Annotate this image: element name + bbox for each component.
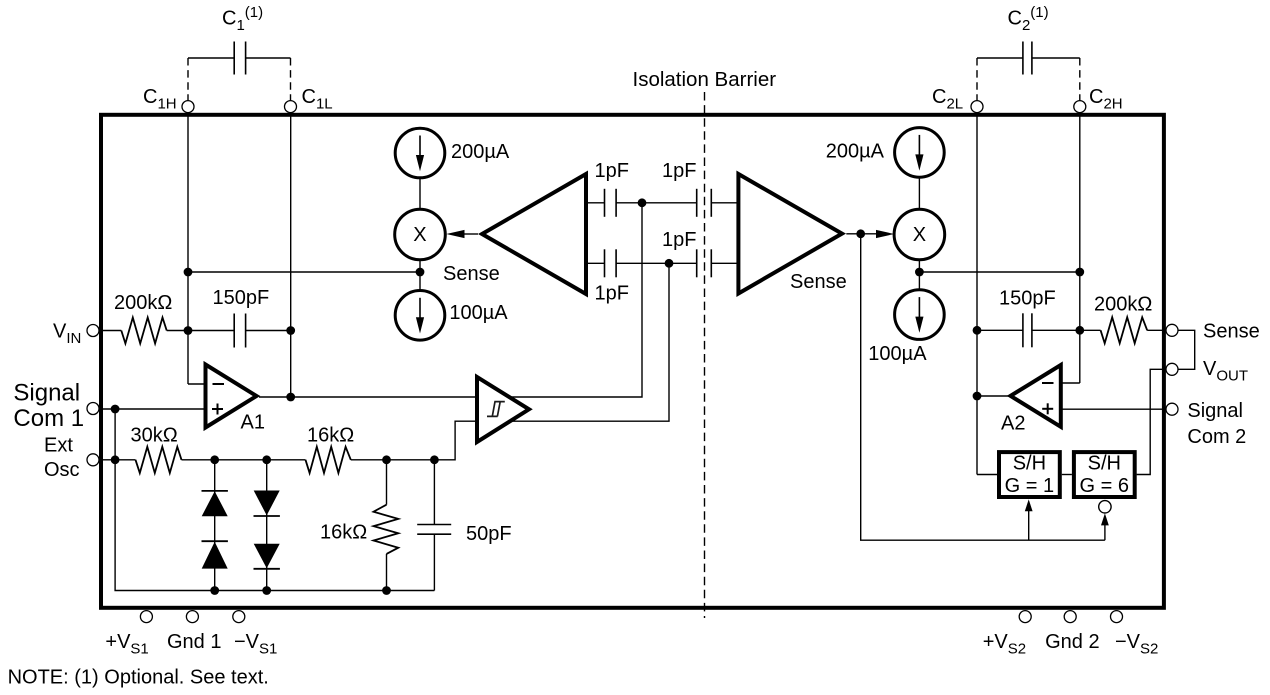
wire S/H G6 to VOUT [1137, 369, 1166, 474]
svg-text:1pF: 1pF [662, 229, 696, 251]
node C2H-150pF [1075, 326, 1084, 335]
wire external sense to vout [1178, 330, 1195, 369]
svg-text:X: X [913, 224, 926, 246]
wire 200k to Sense terminal [1147, 329, 1166, 331]
node receiver output [856, 229, 865, 238]
node 16k bottom [382, 586, 391, 595]
terminal C2L [971, 101, 983, 113]
current source 100uA left [395, 291, 445, 341]
wire A1 inverting stub [188, 383, 206, 385]
wire left demod amp to X (arrow) [462, 233, 478, 235]
node C1H-sense [184, 268, 193, 277]
multiplier X left [395, 209, 446, 260]
svg-text:S/H: S/H [1088, 453, 1121, 475]
wire sense line right [919, 271, 1079, 273]
svg-text:200µA: 200µA [826, 141, 885, 163]
wire X to sense node right [918, 260, 920, 290]
wire C2L to S/H G1 [977, 474, 997, 476]
resistor 30k [136, 447, 182, 473]
amplifier left sense driver [482, 174, 586, 294]
svg-text:Com 2: Com 2 [1187, 426, 1246, 448]
node diode2 bottom [262, 586, 271, 595]
resistor 16k vertical [374, 460, 399, 591]
node 50pF top [430, 455, 439, 464]
node C1L-A1out [286, 393, 295, 402]
wire receiver output [846, 233, 878, 235]
svg-text:Gnd 2: Gnd 2 [1045, 631, 1099, 653]
arrow control into S/H G6 [1104, 525, 1106, 541]
capacitor 1pF upper barrier [697, 189, 739, 217]
svg-text:1pF: 1pF [662, 160, 696, 182]
wire sense line left [188, 271, 420, 273]
terminal C2H [1074, 101, 1086, 113]
svg-text:200kΩ: 200kΩ [114, 292, 172, 314]
capacitor 1pF lower left [586, 249, 697, 277]
wire left bus vertical and bottom [115, 409, 434, 591]
terminal +VS2 [1019, 611, 1031, 623]
terminal C1H [182, 101, 194, 113]
terminal Signal Com 1 [87, 403, 99, 415]
wire resistor to 150pF [167, 330, 235, 332]
wire C1H vertical [187, 113, 189, 384]
capacitor 50pF [417, 460, 451, 591]
svg-text:30kΩ: 30kΩ [131, 425, 178, 447]
svg-text:G = 1: G = 1 [1005, 475, 1054, 497]
svg-text:Isolation Barrier: Isolation Barrier [633, 68, 777, 91]
node sense right [915, 268, 924, 277]
terminal VIN [87, 325, 99, 337]
node signal com 1 bus [111, 405, 120, 414]
node C1L-150pF [286, 326, 295, 335]
wire 150pF to C1L line [246, 330, 291, 332]
node sense left [416, 268, 425, 277]
wire 200uA to X right [918, 177, 920, 209]
terminal VOUT [1166, 363, 1178, 375]
svg-text:16kΩ: 16kΩ [320, 522, 367, 544]
svg-text:50pF: 50pF [466, 523, 512, 545]
wire A1 output to modulator and up [259, 203, 642, 397]
capacitor C2 (external, optional) [977, 4, 1080, 101]
svg-text:100µA: 100µA [449, 302, 508, 324]
isolation barrier dashed line [704, 92, 706, 618]
node upper barrier cap [638, 198, 647, 207]
wire control line down to S/H [861, 234, 1105, 540]
node C2L-150pF [973, 326, 982, 335]
wire 200uA to X left [419, 178, 421, 210]
block S/H G=1 [999, 452, 1060, 497]
svg-text:150pF: 150pF [213, 287, 270, 309]
comparator U1 duty-cycle modulator (hysteresis) [477, 377, 529, 442]
node 16k top [382, 455, 391, 464]
svg-text:G = 6: G = 6 [1080, 475, 1129, 497]
node C1H-vin [184, 326, 193, 335]
wire A2 inverting stub [1061, 382, 1080, 384]
svg-text:100µA: 100µA [868, 343, 927, 365]
wire C1L vertical [290, 113, 292, 397]
svg-text:Sense: Sense [790, 271, 847, 293]
svg-text:A1: A1 [241, 412, 265, 434]
node diode2 top [262, 455, 271, 464]
wire VIN to resistor [99, 330, 121, 332]
svg-text:Signal: Signal [13, 380, 80, 407]
capacitor 150pF left [233, 314, 235, 348]
wire between S/H blocks [1062, 474, 1072, 476]
wire 16k to modulator input [351, 263, 669, 460]
resistor 16k horizontal [306, 447, 351, 473]
svg-text:16kΩ: 16kΩ [307, 425, 354, 447]
op-amp A1 [206, 365, 265, 434]
IC package outline box [101, 115, 1164, 608]
terminal Ext Osc [87, 454, 99, 466]
svg-text:Com 1: Com 1 [13, 405, 84, 432]
wire Ext Osc to 30k [99, 459, 136, 461]
wire C2L to A2 apex [977, 395, 1009, 397]
terminal Gnd 1 [186, 611, 198, 623]
current source 200uA right [895, 128, 945, 178]
svg-text:NOTE: (1) Optional. See text.: NOTE: (1) Optional. See text. [8, 667, 269, 689]
wire 30k to 16k [182, 459, 306, 461]
diode pair up (left string) [202, 460, 228, 591]
terminal Gnd 2 [1064, 611, 1076, 623]
terminal Sense out [1166, 324, 1178, 336]
node C2H-sense [1075, 268, 1084, 277]
terminal +VS1 [140, 611, 152, 623]
capacitor 1pF upper left [586, 189, 697, 217]
terminal Signal Com 2 [1166, 403, 1178, 415]
node C2L-A2 apex [973, 392, 982, 401]
node diode1 bottom [210, 586, 219, 595]
node diode1 top [210, 455, 219, 464]
capacitor 1pF lower barrier [697, 249, 739, 277]
arrowhead into X right [876, 230, 894, 238]
current source 100uA right [895, 290, 945, 340]
resistor 200k input [121, 318, 166, 344]
svg-text:1pF: 1pF [595, 282, 629, 304]
wire X to sense node left [419, 260, 421, 291]
node ext osc bus [111, 455, 120, 464]
capacitor C1 (external, optional) [188, 4, 291, 101]
wire C2L vertical [976, 113, 978, 475]
multiplier X right [894, 209, 945, 260]
terminal -VS2 [1111, 611, 1123, 623]
arrow control into S/H G1 [1028, 510, 1030, 540]
terminal -VS1 [233, 611, 245, 623]
svg-text:Signal: Signal [1187, 400, 1243, 422]
block S/H G=6 [1074, 452, 1135, 497]
svg-text:Ext: Ext [44, 434, 73, 456]
current source 200uA left [395, 128, 445, 178]
wire C2H to 200k [1080, 329, 1101, 331]
wire C2H vertical [1079, 113, 1081, 383]
svg-text:Osc: Osc [44, 459, 80, 481]
op-amp A2 [1001, 365, 1061, 434]
wire Signal Com 1 to A1 plus [99, 408, 206, 410]
capacitor 150pF right [977, 313, 1080, 347]
svg-text:S/H: S/H [1013, 453, 1046, 475]
terminal C1L [285, 101, 297, 113]
svg-text:1pF: 1pF [595, 160, 629, 182]
arrowhead into X left [446, 230, 464, 238]
node lower barrier cap [665, 259, 674, 268]
svg-text:Sense: Sense [1203, 320, 1260, 342]
svg-text:A2: A2 [1001, 412, 1025, 434]
amplifier right sense receiver [738, 174, 842, 294]
node circle below S/H G6 [1099, 501, 1111, 513]
svg-text:150pF: 150pF [999, 287, 1056, 309]
diode pair down (right string) [254, 460, 280, 591]
wire A2 plus to Signal Com 2 [1061, 408, 1166, 410]
resistor 200k right [1101, 317, 1148, 343]
svg-text:Sense: Sense [443, 263, 500, 285]
svg-text:200µA: 200µA [451, 141, 510, 163]
svg-text:Gnd 1: Gnd 1 [167, 631, 221, 653]
svg-text:X: X [413, 224, 426, 246]
svg-text:200kΩ: 200kΩ [1094, 294, 1152, 316]
